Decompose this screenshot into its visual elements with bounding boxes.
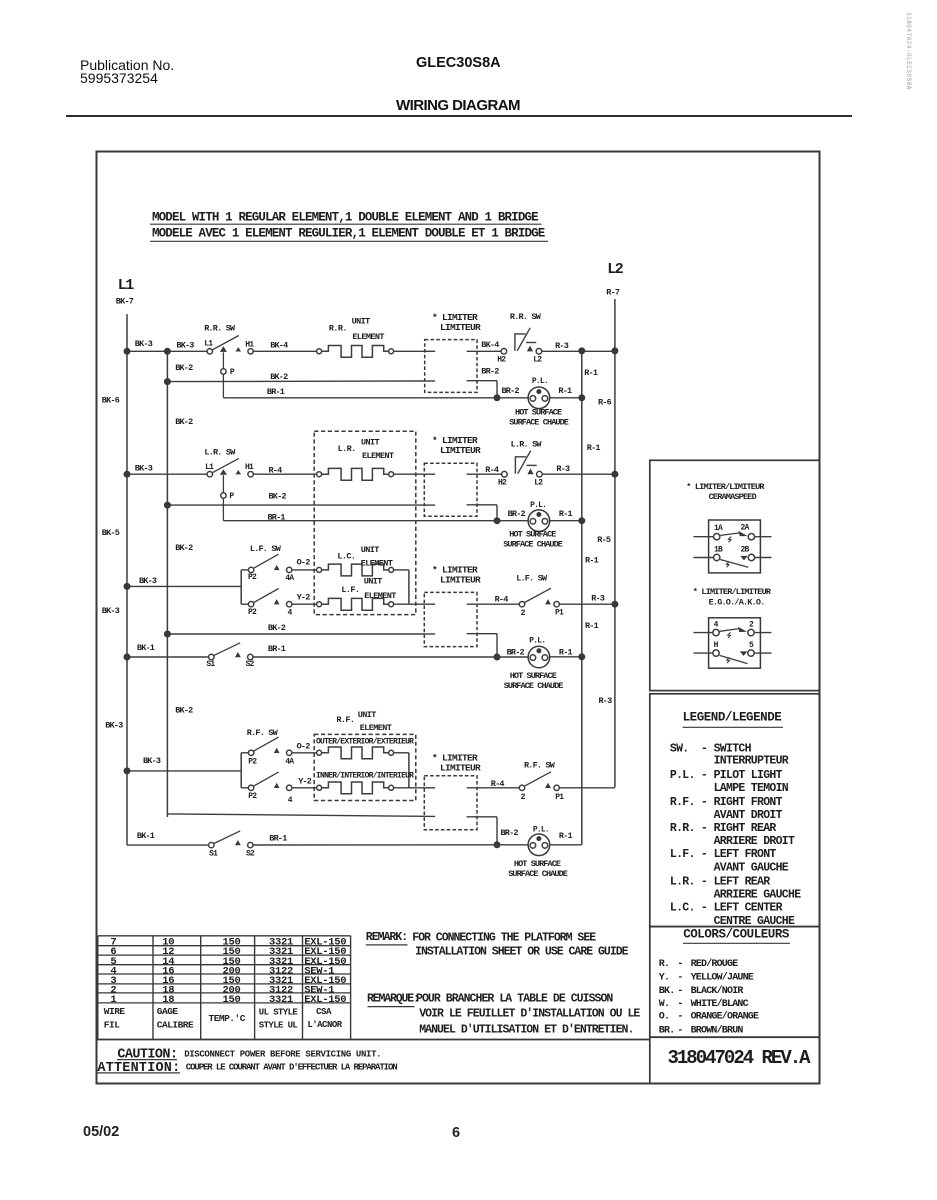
svg-text:BK-1: BK-1 [137,643,155,653]
svg-text:R-1: R-1 [558,386,572,396]
svg-text:R-1: R-1 [584,368,598,378]
svg-text:2: 2 [521,793,526,802]
svg-text:AVANT DROIT: AVANT DROIT [714,809,783,822]
svg-text:SURFACE CHAUDE: SURFACE CHAUDE [504,681,564,691]
svg-text:18: 18 [162,994,174,1006]
svg-text:R.: R. [659,959,669,970]
svg-text:TEMP.'C: TEMP.'C [209,1013,246,1024]
svg-text:ARRIERE GAUCHE: ARRIERE GAUCHE [714,888,802,901]
svg-text:UNIT: UNIT [358,710,377,720]
svg-text:R-5: R-5 [597,535,611,545]
svg-text:2B: 2B [741,545,750,554]
svg-text:UNIT: UNIT [361,545,380,555]
svg-text:Y-2: Y-2 [298,777,312,787]
svg-text:SW.: SW. [670,743,689,756]
svg-text:H: H [714,641,719,650]
svg-text:REMARK:: REMARK: [366,931,407,944]
svg-text:-: - [677,972,682,983]
svg-text:R-1: R-1 [587,443,601,453]
svg-text:SURFACE CHAUDE: SURFACE CHAUDE [509,417,569,427]
svg-text:4A: 4A [285,758,294,767]
svg-text:4A: 4A [285,574,294,583]
svg-text:WHITE/BLANC: WHITE/BLANC [691,998,749,1010]
svg-text:150: 150 [222,994,240,1006]
svg-text:BR-1: BR-1 [267,387,285,397]
svg-text:S1: S1 [206,660,215,669]
svg-text:LEFT CENTER: LEFT CENTER [714,902,783,915]
svg-text:R-7: R-7 [606,287,620,297]
svg-text:ORANGE/ORANGE: ORANGE/ORANGE [691,1010,759,1022]
svg-text:BK-2: BK-2 [175,363,193,373]
svg-text:LEFT FRONT: LEFT FRONT [714,848,777,861]
svg-text:-: - [701,769,707,782]
svg-text:FOR CONNECTING THE PLATFORM SE: FOR CONNECTING THE PLATFORM SEE [412,931,596,944]
svg-text:L2: L2 [534,479,543,488]
svg-text:BR-1: BR-1 [269,834,287,844]
svg-text:HOT SURFACE: HOT SURFACE [509,530,556,540]
svg-text:COUPER LE COURANT AVANT D'EFFE: COUPER LE COURANT AVANT D'EFFECTUER LA R… [186,1062,397,1072]
svg-text:LIMITEUR: LIMITEUR [440,575,481,586]
svg-text:PILOT LIGHT: PILOT LIGHT [714,769,783,782]
svg-text:1: 1 [110,994,116,1006]
svg-text:BK-5: BK-5 [102,528,120,538]
svg-text:BK-3: BK-3 [143,756,161,766]
svg-text:BK-2: BK-2 [175,417,193,427]
svg-text:L1: L1 [205,463,214,472]
svg-text:L.C.: L.C. [337,551,355,561]
svg-text:SURFACE CHAUDE: SURFACE CHAUDE [503,539,563,549]
svg-text:ARRIERE DROIT: ARRIERE DROIT [714,835,795,848]
svg-text:2: 2 [749,621,754,630]
svg-text:S2: S2 [246,660,255,669]
svg-text:AVANT GAUCHE: AVANT GAUCHE [714,862,789,875]
svg-text:L.R. SW: L.R. SW [511,439,543,449]
svg-text:E.G.O./A.K.O.: E.G.O./A.K.O. [709,597,765,607]
svg-text:REMARQUE:: REMARQUE: [367,992,419,1005]
svg-text:4: 4 [288,609,293,618]
svg-text:R-3: R-3 [556,464,570,474]
svg-text:P.L.: P.L. [530,501,546,510]
svg-text:INNER/INTERIOR/INTERIEUR: INNER/INTERIOR/INTERIEUR [316,772,414,781]
svg-text:P1: P1 [555,609,564,618]
svg-text:-: - [701,902,707,915]
svg-text:L.F. SW: L.F. SW [516,574,548,584]
svg-text:R-4: R-4 [269,466,283,476]
svg-text:R.F.: R.F. [336,715,354,725]
svg-text:-: - [677,1011,682,1022]
svg-text:YELLOW/JAUNE: YELLOW/JAUNE [691,971,754,983]
svg-text:P.L.: P.L. [532,377,548,386]
svg-text:UNIT: UNIT [352,317,371,327]
svg-text:-: - [701,848,707,861]
svg-text:INSTALLATION SHEET OR USE CARE: INSTALLATION SHEET OR USE CARE GUIDE [415,946,629,959]
svg-text:BK-3: BK-3 [105,721,123,731]
svg-text:UNIT: UNIT [364,576,383,586]
svg-text:H2: H2 [498,479,507,488]
svg-text:BK.: BK. [659,986,675,997]
svg-text:BK-3: BK-3 [176,340,194,350]
svg-text:R.R. SW: R.R. SW [510,312,542,322]
svg-text:L.R. SW: L.R. SW [204,447,236,457]
svg-text:ELEMENT: ELEMENT [352,332,384,342]
svg-text:R-4: R-4 [495,595,509,605]
svg-text:BK-4: BK-4 [270,341,288,351]
svg-text:L1: L1 [204,339,213,348]
svg-text:BR.: BR. [659,1025,675,1036]
svg-text:H1: H1 [245,463,254,472]
svg-text:BK-1: BK-1 [137,831,155,841]
svg-text:BROWN/BRUN: BROWN/BRUN [691,1024,744,1036]
svg-text:2: 2 [521,609,526,618]
svg-text:* LIMITER/LIMITEUR: * LIMITER/LIMITEUR [693,587,772,597]
svg-text:R-3: R-3 [599,696,613,706]
svg-text:R.F.: R.F. [670,796,695,809]
svg-text:L2: L2 [607,261,624,278]
svg-text:Y.: Y. [659,972,669,983]
svg-text:P2: P2 [248,757,257,766]
svg-text:P1: P1 [555,793,564,802]
svg-text:BR-2: BR-2 [481,367,499,377]
svg-text:BK-3: BK-3 [139,576,157,586]
svg-text:BR-2: BR-2 [507,647,525,657]
svg-text:P2: P2 [248,608,257,617]
svg-text:BK-3: BK-3 [135,463,153,473]
svg-text:-: - [701,743,707,756]
svg-text:L1: L1 [118,277,135,294]
svg-text:UL STYLE: UL STYLE [259,1008,299,1018]
svg-text:WIRE: WIRE [104,1006,126,1017]
svg-text:BK-4: BK-4 [481,340,499,350]
svg-text:HOT SURFACE: HOT SURFACE [514,859,561,869]
svg-text:1A: 1A [714,524,723,533]
svg-text:BR-2: BR-2 [508,509,526,519]
svg-text:BR-1: BR-1 [268,513,286,523]
svg-text:BLACK/NOIR: BLACK/NOIR [691,985,744,997]
svg-text:L'ACNOR: L'ACNOR [307,1020,342,1030]
svg-text:STYLE UL: STYLE UL [259,1021,298,1031]
svg-text:P.L.: P.L. [670,769,695,782]
svg-text:FIL: FIL [104,1020,120,1031]
svg-text:R.F. SW: R.F. SW [247,728,279,738]
svg-text:BK-7: BK-7 [116,296,134,306]
svg-text:R-3: R-3 [555,341,569,351]
svg-text:LEFT REAR: LEFT REAR [714,876,771,889]
svg-text:4: 4 [714,621,719,630]
svg-text:R-6: R-6 [598,398,612,408]
svg-text:BK-2: BK-2 [175,706,193,716]
svg-text:R-4: R-4 [485,465,499,475]
svg-text:BK-2: BK-2 [270,372,288,382]
svg-text:VOIR LE FEUILLET D'INSTALLATIO: VOIR LE FEUILLET D'INSTALLATION OU LE [419,1007,640,1020]
svg-text:L.F.: L.F. [670,848,695,861]
svg-text:-: - [701,796,707,809]
svg-text:R-1: R-1 [559,509,573,519]
svg-text:BR-1: BR-1 [268,644,286,654]
svg-text:BR-2: BR-2 [501,828,519,838]
svg-text:P2: P2 [248,573,257,582]
svg-text:HOT SURFACE: HOT SURFACE [515,408,562,418]
svg-text:BK-2: BK-2 [268,623,286,633]
svg-text:RED/ROUGE: RED/ROUGE [691,958,739,970]
svg-text:LAMPE TEMOIN: LAMPE TEMOIN [714,782,789,795]
svg-text:ELEMENT: ELEMENT [364,591,396,601]
svg-text:DISCONNECT POWER BEFORE SERVIC: DISCONNECT POWER BEFORE SERVICING UNIT. [184,1050,381,1060]
svg-text:HOT SURFACE: HOT SURFACE [510,671,557,681]
svg-text:O-2: O-2 [297,558,311,568]
svg-text:P.L.: P.L. [533,825,549,834]
svg-text:H2: H2 [497,355,506,364]
svg-text:COLORS/COULEURS: COLORS/COULEURS [683,928,790,942]
svg-text:L.R.: L.R. [338,444,356,454]
svg-text:RIGHT REAR: RIGHT REAR [714,822,777,835]
svg-text:-: - [677,1025,682,1036]
svg-text:R.R. SW: R.R. SW [204,324,236,334]
svg-text:5: 5 [749,641,754,650]
svg-text:R-1: R-1 [559,831,573,841]
svg-text:POUR BRANCHER LA TABLE DE CUIS: POUR BRANCHER LA TABLE DE CUISSON [416,992,613,1005]
svg-text:L.F.: L.F. [341,585,359,595]
svg-text:2A: 2A [741,524,750,533]
svg-text:318047024 REV.A: 318047024 REV.A [668,1047,812,1069]
svg-text:R.R.: R.R. [329,324,347,334]
svg-text:EXL-150: EXL-150 [304,994,346,1006]
svg-text:UNIT: UNIT [361,437,380,447]
svg-text:R.R.: R.R. [670,822,695,835]
svg-text:L2: L2 [533,355,542,364]
svg-text:ELEMENT: ELEMENT [360,723,392,733]
svg-text:R-1: R-1 [559,647,573,657]
svg-text:Y-2: Y-2 [297,592,311,602]
svg-text:BK-3: BK-3 [102,606,120,616]
svg-text:BR-2: BR-2 [502,386,520,396]
svg-text:P: P [230,368,235,377]
svg-text:R-3: R-3 [591,593,605,603]
svg-text:O.: O. [659,1011,669,1022]
svg-text:BK-6: BK-6 [102,395,120,405]
svg-text:CERAMASPEED: CERAMASPEED [709,492,757,502]
svg-text:P2: P2 [248,792,257,801]
svg-text:MANUEL D'UTILISATION ET D'ENTR: MANUEL D'UTILISATION ET D'ENTRETIEN. [419,1023,633,1036]
svg-text:1B: 1B [714,545,723,554]
svg-text:MODEL WITH 1 REGULAR ELEMENT,1: MODEL WITH 1 REGULAR ELEMENT,1 DOUBLE EL… [152,211,538,225]
svg-text:LEGEND/LEGENDE: LEGEND/LEGENDE [683,711,782,725]
svg-text:ELEMENT: ELEMENT [362,451,394,461]
svg-text:R-1: R-1 [585,556,599,566]
svg-text:GAGE: GAGE [157,1006,179,1017]
svg-text:-: - [677,959,682,970]
svg-text:S1: S1 [209,850,218,859]
svg-text:CALIBRE: CALIBRE [157,1020,194,1031]
svg-text:S2: S2 [246,850,255,859]
svg-text:-: - [701,822,707,835]
svg-text:CSA: CSA [316,1007,332,1017]
svg-text:LIMITEUR: LIMITEUR [440,322,481,333]
svg-text:4: 4 [288,796,293,805]
svg-text:L.F. SW: L.F. SW [250,544,282,554]
svg-text:BK-2: BK-2 [175,543,193,553]
svg-text:O-2: O-2 [297,742,311,752]
svg-text:MODELE AVEC 1 ELEMENT REGULIER: MODELE AVEC 1 ELEMENT REGULIER,1 ELEMENT… [152,227,545,241]
svg-text:ELEMENT: ELEMENT [361,558,393,568]
svg-text:-: - [677,986,682,997]
svg-text:-: - [701,876,707,889]
svg-text:BK-2: BK-2 [269,491,287,501]
svg-text:* LIMITER/LIMITEUR: * LIMITER/LIMITEUR [686,482,765,492]
svg-text:H1: H1 [245,341,254,350]
svg-text:L.R.: L.R. [670,876,695,889]
svg-text:LIMITEUR: LIMITEUR [440,763,481,774]
svg-text:P.L.: P.L. [529,636,545,645]
svg-text:OUTER/EXTERIOR/EXTERIEUR: OUTER/EXTERIOR/EXTERIEUR [316,738,414,747]
svg-text:CENTRE GAUCHE: CENTRE GAUCHE [714,915,795,928]
svg-text:ATTENTION:: ATTENTION: [97,1061,180,1076]
svg-text:P: P [229,492,234,501]
svg-text:RIGHT FRONT: RIGHT FRONT [714,796,783,809]
svg-text:R-1: R-1 [585,621,599,631]
svg-text:R.F. SW: R.F. SW [524,761,556,771]
svg-text:W.: W. [659,999,669,1010]
svg-text:LIMITEUR: LIMITEUR [440,445,481,456]
svg-text:INTERRUPTEUR: INTERRUPTEUR [714,755,789,768]
svg-text:BK-3: BK-3 [135,339,153,349]
svg-text:L.C.: L.C. [670,902,695,915]
svg-text:SURFACE CHAUDE: SURFACE CHAUDE [508,869,568,879]
svg-text:-: - [677,999,682,1010]
svg-text:3321: 3321 [269,994,293,1006]
svg-text:R-4: R-4 [491,779,505,789]
